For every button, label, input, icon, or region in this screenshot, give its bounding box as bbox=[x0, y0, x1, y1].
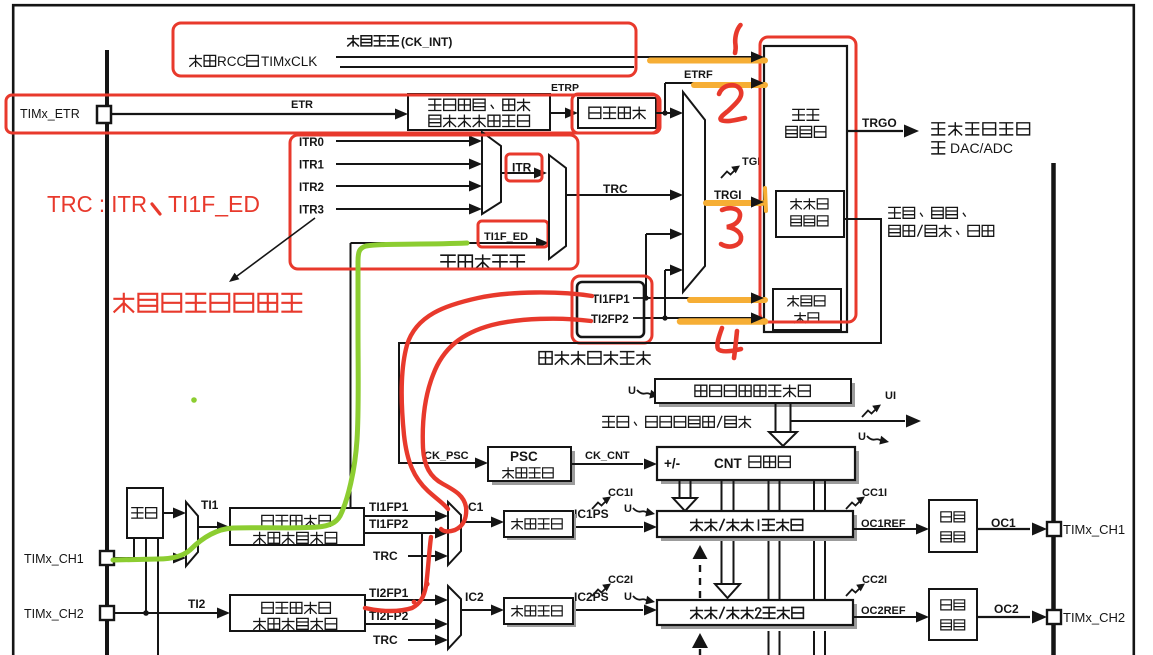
wire ETRF bbox=[656, 69, 764, 119]
svg-text:ETRF: ETRF bbox=[684, 69, 713, 81]
wire TI2FP2 to mux bbox=[365, 609, 448, 630]
svg-text:RCC: RCC bbox=[217, 54, 246, 69]
block input filter bbox=[578, 98, 656, 128]
orange highlight 4 TI1FP1 bbox=[690, 293, 765, 304]
red handwritten 2 bbox=[719, 85, 745, 121]
mux IC2 select bbox=[448, 586, 461, 649]
svg-text:ITR1: ITR1 bbox=[299, 160, 325, 172]
wire TI2FP1 to mux bbox=[365, 586, 448, 606]
right pin bus bbox=[1051, 163, 1056, 655]
green dot bbox=[191, 397, 197, 403]
block PSC prescaler bbox=[488, 447, 575, 485]
red annotation box input filter bbox=[572, 94, 658, 133]
wire TRGI bbox=[705, 190, 764, 208]
wire TI1FP1 to encoder bbox=[643, 229, 764, 304]
svg-text:U: U bbox=[628, 385, 636, 397]
label to other timers bbox=[932, 123, 1030, 135]
flag CC2I right bbox=[846, 574, 887, 596]
red annotation box ITR group bbox=[290, 135, 578, 269]
mux trigger input select bbox=[683, 92, 705, 292]
svg-text:CK_PSC: CK_PSC bbox=[424, 450, 469, 462]
svg-text:TIMx_CH2: TIMx_CH2 bbox=[1063, 610, 1125, 625]
wire TRC bbox=[566, 182, 683, 201]
red annotation box internal clock bbox=[173, 23, 636, 76]
bus CNT to capture1 arrow bbox=[673, 480, 697, 511]
green curve TI1F_ED to TIMx_CH1 bbox=[113, 243, 467, 560]
annotation arrow to cascade note bbox=[229, 218, 315, 282]
label TIMx_ETR bbox=[20, 107, 80, 121]
svg-text:CC2I: CC2I bbox=[862, 574, 887, 586]
wire IC1PS bbox=[573, 507, 657, 533]
label 双边沿触发 bbox=[441, 255, 524, 268]
wire ITR2 bbox=[336, 181, 482, 192]
red curve TI2FP2 loop to mux bbox=[423, 319, 591, 532]
wire ITR0 bbox=[336, 136, 482, 147]
svg-text:TI1F_ED: TI1F_ED bbox=[168, 191, 260, 217]
svg-text:TRC: TRC bbox=[603, 182, 628, 196]
pin TIMx_CH1 in bbox=[24, 551, 114, 566]
block output control 2 bbox=[929, 589, 977, 640]
svg-text:TI1F_ED: TI1F_ED bbox=[484, 231, 528, 243]
svg-text:TRC: TRC bbox=[373, 633, 398, 647]
bus pair2 lower arrow bbox=[715, 537, 740, 598]
svg-text:CC1I: CC1I bbox=[608, 487, 633, 499]
wire XOR out bbox=[163, 508, 186, 519]
label ITR1 bbox=[299, 160, 325, 172]
wire TRGO bbox=[847, 116, 919, 138]
svg-text:OC1: OC1 bbox=[991, 516, 1016, 530]
wire TI1 bbox=[198, 498, 230, 533]
svg-text:TIMx_ETR: TIMx_ETR bbox=[20, 107, 80, 121]
wire TI1FP1 to mux bbox=[364, 500, 448, 522]
box trigger controller outline bbox=[764, 46, 847, 332]
svg-text:TI1FP2: TI1FP2 bbox=[369, 517, 409, 531]
wire ETR bbox=[111, 99, 408, 120]
block slave mode controller bbox=[776, 191, 844, 237]
label ITR0 bbox=[299, 137, 324, 149]
label 上升沿或下降沿 bbox=[539, 352, 650, 365]
flag CC1I right bbox=[846, 487, 887, 509]
svg-text:(CK_INT): (CK_INT) bbox=[401, 35, 452, 49]
svg-text:OC2REF: OC2REF bbox=[861, 605, 906, 617]
svg-text:U: U bbox=[624, 503, 632, 515]
red annotation box ETR row bbox=[6, 95, 660, 133]
orange highlight 1 CK_INT bbox=[650, 52, 765, 63]
svg-text:TI1FP1: TI1FP1 bbox=[592, 294, 630, 306]
mux ITR select bbox=[482, 132, 501, 214]
wire reload to CNT bbox=[769, 403, 921, 446]
wire ITR3 bbox=[336, 204, 482, 215]
svg-text:TRGO: TRGO bbox=[862, 116, 897, 130]
flag CC2I left bbox=[592, 574, 633, 596]
mux TRC select bbox=[549, 155, 566, 259]
svg-text:IC1PS: IC1PS bbox=[574, 507, 609, 521]
wire TI2 bbox=[114, 597, 230, 619]
wire XOR feed CH1 bbox=[133, 538, 135, 558]
label 内部时钟 (CK_INT) bbox=[348, 35, 453, 49]
svg-text:CC1I: CC1I bbox=[862, 487, 887, 499]
wire OC1REF bbox=[853, 518, 929, 535]
wire TI2FP2 to encoder bbox=[644, 265, 764, 324]
svg-text:DAC/ADC: DAC/ADC bbox=[950, 140, 1013, 156]
flag U below UI bbox=[858, 431, 889, 445]
wire C1 bbox=[461, 500, 504, 528]
bus pair3 bbox=[769, 480, 780, 655]
svg-text:UI: UI bbox=[885, 390, 896, 402]
flag U reload bbox=[628, 385, 659, 399]
label ITR3 bbox=[299, 205, 324, 217]
svg-text:ITR0: ITR0 bbox=[299, 137, 324, 149]
svg-text:TRC : ITR: TRC : ITR bbox=[47, 191, 147, 217]
label 来自RCC的TIMxCLK bbox=[190, 54, 317, 69]
wire IC2PS bbox=[573, 590, 657, 616]
svg-text:TI1: TI1 bbox=[201, 498, 219, 512]
svg-text:ETR: ETR bbox=[291, 99, 313, 111]
red note cascade timers bbox=[114, 294, 301, 312]
svg-text:TIMxCLK: TIMxCLK bbox=[261, 54, 317, 69]
red handwritten 3 bbox=[721, 208, 741, 246]
pin TIMx_CH2 out bbox=[1047, 610, 1125, 625]
red annotation box TI1F_ED bbox=[478, 221, 548, 247]
svg-text:TI2: TI2 bbox=[188, 597, 206, 611]
svg-text:CC2I: CC2I bbox=[608, 574, 633, 586]
svg-text:TI1FP1: TI1FP1 bbox=[369, 500, 409, 514]
svg-text:PSC: PSC bbox=[510, 449, 538, 464]
red annotation box ITR bbox=[506, 154, 542, 181]
red annotation box TI1FP1/TI2FP2 bbox=[572, 276, 652, 343]
pin TIMx_ETR bbox=[97, 106, 111, 123]
block TI1FP1/TI2FP2 bbox=[577, 282, 644, 337]
wire XOR feed CH3 bbox=[157, 538, 159, 655]
red handwritten 4 bbox=[717, 328, 741, 358]
label ITR2 bbox=[299, 182, 324, 194]
svg-text:C1: C1 bbox=[468, 500, 484, 514]
svg-text:CK_CNT: CK_CNT bbox=[585, 450, 630, 462]
flag UI bbox=[862, 390, 896, 417]
svg-text:OC1REF: OC1REF bbox=[861, 518, 906, 530]
mux TI1 xor select bbox=[186, 502, 198, 566]
wire IC2 bbox=[461, 590, 504, 616]
wire ITR1 bbox=[336, 159, 482, 170]
bus pair2 upper bbox=[722, 480, 734, 511]
dashed arrow capture2 to capture1 bbox=[693, 545, 708, 598]
svg-text:TIMx_CH1: TIMx_CH1 bbox=[24, 552, 84, 566]
wire OC2 bbox=[977, 602, 1047, 624]
wire TI1FP2 to mux bbox=[364, 517, 448, 600]
svg-text:ETRP: ETRP bbox=[551, 82, 579, 94]
wire TI1 from pin bbox=[114, 553, 186, 564]
flag TGI bbox=[721, 156, 760, 178]
wire OC1 bbox=[977, 516, 1047, 536]
svg-text:ITR3: ITR3 bbox=[299, 205, 324, 217]
block capture/compare 2 bbox=[657, 600, 857, 629]
block prescaler IC2 bbox=[504, 598, 576, 627]
arrow up into capture2 bbox=[692, 633, 708, 655]
orange highlight 2 ETRF bbox=[694, 78, 765, 89]
red annotation box trigger controller bbox=[760, 37, 856, 322]
pin TIMx_CH2 in bbox=[24, 606, 114, 621]
wire CK_CNT bbox=[571, 450, 657, 470]
wire TI1F_ED bbox=[351, 238, 550, 509]
wire ETRP bbox=[550, 82, 579, 119]
red curve down to TI2FP1 bbox=[365, 537, 431, 611]
block capture/compare 1 bbox=[657, 511, 857, 541]
block auto-reload register bbox=[655, 379, 855, 407]
label 停止清除或向上向下 bbox=[603, 416, 751, 427]
svg-text:IC2PS: IC2PS bbox=[574, 590, 609, 604]
flag CC1I left bbox=[592, 487, 633, 509]
red curve TI1FP1 to C1 mux bbox=[402, 292, 592, 509]
block polarity/edge-detect/prescaler bbox=[408, 94, 550, 130]
orange highlight 5 TI2FP2 bbox=[680, 313, 765, 324]
block CNT counter bbox=[657, 447, 859, 484]
block encoder interface bbox=[773, 289, 841, 330]
red note TRC:ITR TI1F_ED bbox=[47, 191, 260, 217]
orange highlight 3 TRGI bbox=[706, 188, 766, 211]
svg-text:CNT: CNT bbox=[714, 456, 742, 471]
svg-text:ITR2: ITR2 bbox=[299, 182, 324, 194]
svg-text:TRC: TRC bbox=[373, 549, 398, 563]
wire slave mode to CK_PSC bbox=[399, 219, 881, 469]
svg-text:TIMx_CH2: TIMx_CH2 bbox=[24, 607, 84, 621]
label 触发控制器 bbox=[786, 109, 826, 137]
block input filter edge detector 2 bbox=[230, 595, 365, 631]
svg-text:ITR: ITR bbox=[512, 161, 532, 175]
svg-text:TI2FP1: TI2FP1 bbox=[369, 586, 409, 600]
wire TRC to mux1 bbox=[373, 549, 448, 563]
svg-text:+/-: +/- bbox=[664, 456, 680, 471]
svg-text:U: U bbox=[624, 591, 632, 603]
svg-text:U: U bbox=[858, 431, 866, 443]
block XOR bbox=[127, 488, 163, 538]
label to DAC/ADC bbox=[932, 140, 1013, 156]
block input filter edge detector 1 bbox=[230, 508, 364, 545]
wire TRC to mux2 bbox=[373, 633, 448, 647]
pin TIMx_CH1 out bbox=[1047, 522, 1125, 537]
wire ITR bbox=[501, 168, 547, 179]
bus pair4 bbox=[814, 480, 825, 655]
svg-text:TI2FP2: TI2FP2 bbox=[591, 314, 629, 326]
wire CK_INT internal clock bbox=[336, 52, 764, 68]
wire XOR feed CH2 bbox=[143, 538, 149, 616]
block output control 1 bbox=[929, 500, 977, 552]
block prescaler IC1 bbox=[504, 511, 576, 540]
label reset enable updown count bbox=[889, 207, 994, 236]
svg-text:TGI: TGI bbox=[742, 156, 760, 168]
flag U capture2 bbox=[624, 591, 655, 605]
svg-text:OC2: OC2 bbox=[994, 602, 1019, 616]
mux IC1 select bbox=[448, 502, 461, 565]
svg-text:IC2: IC2 bbox=[465, 590, 484, 604]
wire OC2REF bbox=[853, 605, 929, 623]
flag U capture1 bbox=[624, 503, 655, 517]
left pin bus bbox=[105, 50, 109, 655]
red handwritten 1 bbox=[735, 25, 741, 53]
svg-text:TIMx_CH1: TIMx_CH1 bbox=[1063, 522, 1125, 537]
